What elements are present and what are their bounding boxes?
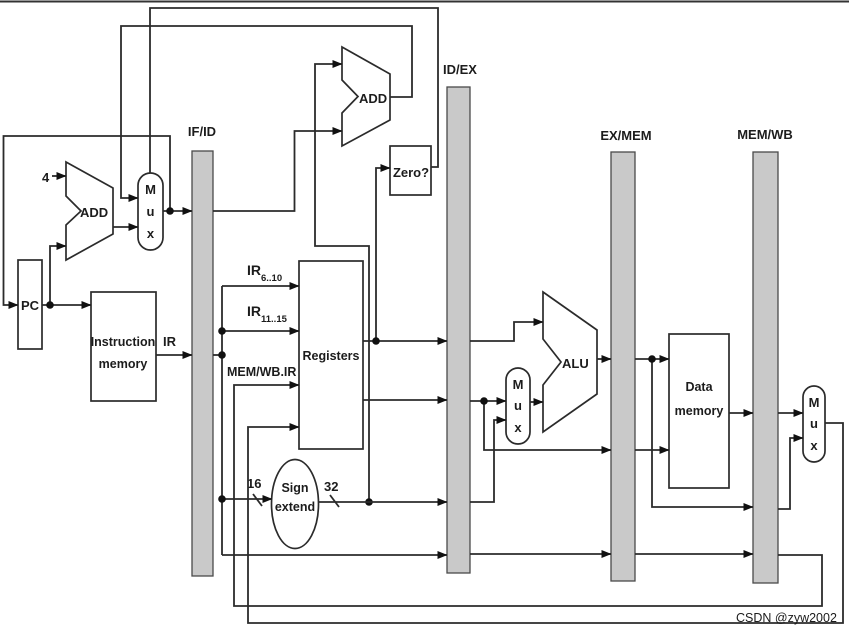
top border line <box>0 1 849 3</box>
wire: EX/MEM ALU result to data memory address <box>635 358 669 360</box>
wire: ALU result into EX/MEM <box>597 358 611 360</box>
register PC <box>18 260 42 349</box>
node: junction on sign-extend output <box>365 498 373 506</box>
wire: sign extend output into ID/EX <box>319 479 448 507</box>
wire: EX/MEM store data to data memory <box>635 449 669 451</box>
adder ADD (branch target) <box>342 47 390 146</box>
node: junction read data 1 <box>372 337 380 345</box>
wire: branch-target adder output to mux M1 input <box>121 26 412 198</box>
zero? comparator <box>390 146 431 195</box>
wire: mux M1 output into IF/ID <box>163 210 192 212</box>
svg-text:u: u <box>514 398 522 413</box>
wire: mux M2 output to ALU input <box>530 401 543 403</box>
svg-text:Instruction: Instruction <box>91 335 156 349</box>
svg-text:u: u <box>810 416 818 431</box>
wire: MEM/WB ALU result to mux M3 <box>778 438 803 509</box>
wire: ID/EX read data 2 to mux M2 <box>470 400 506 402</box>
pipeline register IF/ID <box>188 124 216 576</box>
wire: store data bypass into EX/MEM <box>484 401 611 450</box>
wire: immediate 16 bits into sign extend <box>218 476 272 506</box>
wire: ID/EX IR forwarded into EX/MEM <box>470 553 611 555</box>
wire: sign-extended offset to branch adder input <box>315 64 369 502</box>
mux M2 (ALU operand B) <box>506 368 530 444</box>
registers (register file) <box>299 261 363 449</box>
wire: new PC loop back to PC <box>4 136 171 305</box>
pipeline register ID/EX <box>443 62 477 573</box>
wire: EX/MEM IR forwarded into MEM/WB <box>635 553 753 555</box>
svg-text:32: 32 <box>324 479 338 494</box>
svg-text:PC: PC <box>21 298 40 313</box>
wire: Zero? output to mux M1 select <box>150 8 438 173</box>
svg-text:u: u <box>147 204 155 219</box>
wire: read data 1 into ID/EX <box>363 340 447 342</box>
node: junction read data 2 <box>480 397 488 405</box>
data memory <box>669 334 729 488</box>
wire: IR distribution vertical <box>221 286 223 555</box>
svg-text:x: x <box>810 438 818 453</box>
node: IR junction <box>218 351 226 359</box>
wire: instruction memory IR into IF/ID <box>156 334 192 355</box>
wire: MEM/WB read data to mux M3 <box>778 412 803 414</box>
svg-text:IF/ID: IF/ID <box>188 124 216 139</box>
svg-text:MEM/WB: MEM/WB <box>737 127 793 142</box>
wire: IR 6..10 to Registers <box>222 262 299 286</box>
wire: ID/EX read data 1 to ALU input <box>470 322 543 341</box>
wire: IR 11..15 to Registers <box>218 303 299 335</box>
svg-text:ADD: ADD <box>80 205 108 220</box>
svg-text:Data: Data <box>685 380 713 394</box>
wire: read data 2 into ID/EX <box>363 399 447 401</box>
constant 4 input to adder <box>42 170 66 185</box>
svg-text:EX/MEM: EX/MEM <box>600 128 651 143</box>
svg-text:4: 4 <box>42 170 50 185</box>
wire: write-back data loop from mux M3 to Registers <box>248 423 843 623</box>
wire: ALU result bypass into MEM/WB <box>652 359 753 507</box>
sign extend unit <box>272 460 319 549</box>
pipeline register EX/MEM <box>600 128 651 581</box>
ALU <box>543 292 597 432</box>
mux M1 (PC source) <box>138 173 163 250</box>
wire: PC output up to increment adder <box>50 246 66 305</box>
wire: MEM/WB.IR write-register loop to Registers <box>227 365 822 606</box>
mux M3 (write-back select) <box>803 386 825 462</box>
wire: IR forwarded into ID/EX <box>222 554 447 556</box>
adder ADD (PC increment) <box>66 162 113 260</box>
svg-text:ADD: ADD <box>359 91 387 106</box>
svg-text:16: 16 <box>247 476 261 491</box>
svg-text:x: x <box>147 226 155 241</box>
svg-text:memory: memory <box>675 404 724 418</box>
svg-text:CSDN @zyw2002: CSDN @zyw2002 <box>736 611 837 625</box>
svg-text:Sign: Sign <box>281 481 308 495</box>
svg-text:IR6..10: IR6..10 <box>247 262 282 284</box>
wire: read data 1 up to Zero? <box>376 168 390 341</box>
node: junction on PC output <box>46 301 54 309</box>
svg-text:ALU: ALU <box>562 356 589 371</box>
node: junction ALU result <box>648 355 656 363</box>
svg-text:M: M <box>809 395 820 410</box>
svg-text:ID/EX: ID/EX <box>443 62 477 77</box>
svg-text:Registers: Registers <box>303 349 360 363</box>
wire: ID/EX immediate to mux M2 <box>470 420 506 502</box>
wire: increment adder output to mux M1 input <box>113 226 138 228</box>
svg-text:M: M <box>145 182 156 197</box>
wire: data memory read data into MEM/WB <box>729 412 753 414</box>
pipeline register MEM/WB <box>737 127 793 583</box>
node: junction on mux M1 output <box>166 207 174 215</box>
svg-text:IR11..15: IR11..15 <box>247 303 288 325</box>
svg-text:MEM/WB.IR: MEM/WB.IR <box>227 365 296 379</box>
instruction memory <box>91 292 156 401</box>
svg-text:IR: IR <box>163 334 177 349</box>
wire: PC output to instruction memory <box>42 304 91 306</box>
svg-text:M: M <box>513 377 524 392</box>
svg-text:extend: extend <box>275 500 315 514</box>
svg-text:memory: memory <box>99 357 148 371</box>
svg-text:x: x <box>514 420 522 435</box>
wire: IF/ID PC+4 to branch adder input <box>213 131 342 211</box>
svg-text:Zero?: Zero? <box>393 165 429 180</box>
wire: IR bus out of IF/ID <box>213 354 222 356</box>
